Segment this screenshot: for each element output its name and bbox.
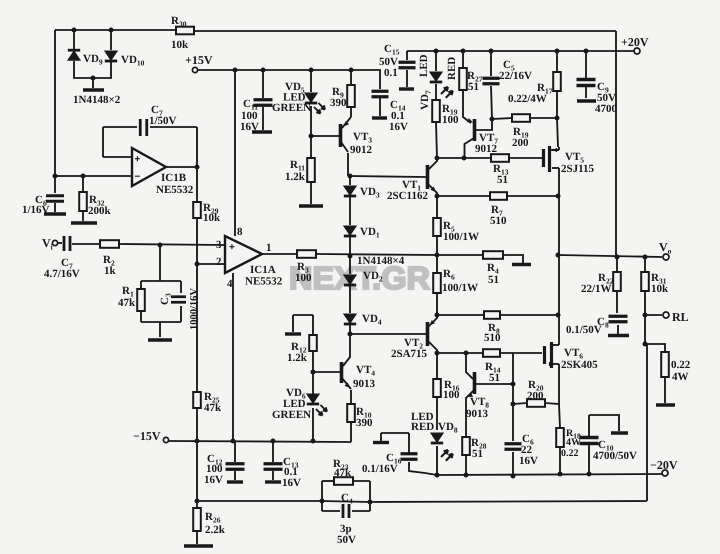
node R22 tap (615, 255, 620, 260)
wire R9 to VT3 emitter (350, 107, 352, 117)
wire VD4 to node B (349, 324, 351, 334)
wire VT4 emitter diagonal (342, 378, 351, 389)
svg-text:−20V: −20V (650, 458, 678, 472)
MOSFET VT6 2SK405 (543, 346, 546, 364)
wire R32 top lead (82, 176, 84, 192)
wire VD8 to bottom rail (436, 446, 438, 475)
svg-text:9012: 9012 (350, 144, 373, 156)
node C6 rail (511, 474, 516, 479)
node C9 rail tap (584, 49, 589, 54)
wire R16 to VD8 (436, 397, 438, 430)
svg-text:9013: 9013 (466, 408, 489, 420)
wire R28 to bottom rail (465, 455, 467, 476)
resistor R27 (459, 68, 467, 90)
capacitor C8 (609, 316, 628, 322)
diode VD4 (344, 314, 356, 323)
wire VT3 emitter diagonal (342, 117, 351, 128)
node RL (643, 313, 648, 318)
wire R9 top lead (350, 70, 352, 85)
wire R8 to output line (500, 314, 559, 316)
svg-text:2SC1162: 2SC1162 (387, 190, 428, 202)
node C5 rail tap (489, 49, 494, 54)
svg-text:−: − (135, 172, 141, 183)
wire R23-C4 left bracket (321, 481, 323, 511)
node VT2 emitter (435, 313, 440, 318)
arrows VD7 (441, 87, 448, 94)
node R23 C4 left (320, 499, 325, 504)
wire C4 right lead (352, 510, 370, 512)
node VT8 base junction (511, 382, 516, 387)
capacitor C15 (399, 62, 416, 68)
wire VD10 top lead (110, 30, 112, 50)
wire C7 feedback left horizontal (103, 126, 137, 128)
wire servo top right segment (194, 30, 616, 32)
wire C10 ground jog (589, 415, 619, 431)
terminal RL (663, 312, 669, 318)
transistor VT3 9012 PNP (339, 124, 343, 147)
wire +20V rail (407, 50, 637, 52)
svg-text:4W: 4W (566, 437, 581, 448)
wire VT6 drain up (558, 315, 560, 345)
wire C3 top lead (180, 281, 182, 293)
node R31 tap (643, 255, 648, 260)
wire C12 top lead (234, 441, 236, 462)
resistor R32 (79, 192, 87, 211)
node input bias tap (158, 243, 163, 248)
capacitor C14 (372, 91, 389, 97)
wire C3 bottom lead (180, 306, 182, 322)
svg-text:NE5532: NE5532 (245, 276, 283, 288)
wire C7 input to R2 (72, 243, 100, 245)
wire C5 node to R19 200 (492, 118, 512, 119)
terminal Vi (52, 240, 57, 245)
node VD8 rail (435, 473, 440, 478)
svg-text:0.1/16V: 0.1/16V (362, 463, 398, 475)
transistor VT1 2SC1162 NPN (426, 165, 430, 189)
LED VD6 (307, 394, 319, 403)
svg-text:2SA715: 2SA715 (391, 348, 428, 360)
svg-text:RED: RED (446, 57, 458, 80)
wire R31 to RL node (644, 291, 646, 344)
resistor R16 (433, 379, 441, 397)
wire VT5 source up (558, 147, 560, 150)
wire VT4 base from R12 node (313, 371, 340, 373)
ground C8 (608, 334, 629, 337)
wire VT8 emitter diagonal (466, 390, 474, 400)
wire R32 ground lead (82, 211, 84, 221)
svg-text:2SK405: 2SK405 (561, 359, 598, 371)
svg-text:50V: 50V (337, 534, 356, 546)
wire bias node to R6 (436, 255, 438, 273)
node feedback takeoff (643, 342, 648, 347)
svg-text:47k: 47k (118, 297, 136, 309)
svg-text:2: 2 (216, 256, 222, 268)
ground bar C9 (577, 99, 596, 102)
wire node A to VT1 base (350, 176, 426, 177)
op-amp IC1A (225, 236, 262, 273)
resistor R11 (307, 158, 315, 182)
wire VD9 top lead (73, 30, 75, 50)
wire R27 top lead (462, 51, 464, 68)
resistor R5 (433, 218, 441, 236)
ground bar C10 (611, 431, 628, 434)
svg-text:10k: 10k (651, 283, 669, 295)
node IC1B output (195, 165, 200, 170)
wire RL node to damping resistor (645, 344, 665, 352)
wire VD5 to R11 and VT3 base node (310, 106, 312, 158)
resistor R18 (556, 428, 564, 447)
resistor R30 (176, 27, 194, 35)
wire VT5 source lead (549, 149, 559, 151)
node diode chain bottom (348, 332, 353, 337)
wire bias node to R4 (437, 254, 483, 256)
resistor R29 (193, 202, 201, 218)
node pin4 rail junction (231, 439, 236, 444)
wire VD7 top lead (435, 51, 437, 71)
wire R12 top lead (312, 315, 314, 335)
node VT6 drain junction (556, 313, 561, 318)
svg-text:10k: 10k (171, 39, 189, 51)
svg-text:+15V: +15V (185, 53, 213, 67)
svg-text:51: 51 (488, 274, 499, 286)
wire R1 bottom lead (140, 311, 142, 322)
node R9 tap (349, 68, 354, 73)
LED VD7 (430, 72, 442, 81)
resistor R19 200 (512, 114, 530, 122)
svg-text:100: 100 (295, 272, 312, 284)
wire C9 top lead (585, 51, 587, 78)
svg-text:200: 200 (527, 390, 544, 402)
resistor R23 (334, 477, 353, 485)
capacitor C12 (226, 464, 245, 470)
wire C16 jog to termination (381, 432, 409, 434)
transistor VT2 2SA715 PNP (426, 322, 430, 346)
wire feedback line left (197, 500, 322, 502)
node C13 tap (271, 439, 276, 444)
ground bar C13 (265, 480, 281, 483)
node pin8 supply tap (233, 68, 238, 73)
transistor VT4 9013 NPN (340, 362, 344, 383)
node VT3 base (309, 134, 314, 139)
wire C7 feedback left vertical (102, 127, 104, 157)
wire C12 lower lead (234, 471, 236, 480)
LED VD5 (305, 93, 317, 102)
node C11 tap (261, 68, 266, 73)
wire VD1 to mid node (349, 236, 351, 256)
svg-text:3: 3 (216, 239, 222, 251)
svg-text:200: 200 (512, 137, 529, 149)
wire C13 top lead (272, 441, 274, 462)
svg-text:16V: 16V (282, 477, 301, 489)
wire feedback line right (370, 501, 647, 502)
node R28 rail (464, 473, 469, 478)
wire R10 to -15V rail corner (350, 422, 352, 442)
node VD10 tap (109, 28, 114, 33)
capacitor C11 (254, 100, 273, 106)
wire R19 200 to R17 node (530, 117, 557, 119)
capacitor C10 (580, 438, 599, 444)
svg-text:8: 8 (237, 226, 243, 238)
ground R4 (512, 263, 531, 266)
capacitor C9 (577, 80, 596, 86)
wire IC1B non-inverting input (103, 156, 132, 158)
resistor R19 100 (432, 100, 440, 122)
svg-text:0.1: 0.1 (384, 67, 398, 79)
wire damping resistor ground lead (664, 377, 666, 403)
terminal +20V (634, 48, 640, 54)
resistor R1 (137, 289, 145, 311)
wire R20 node to C6 (512, 404, 514, 441)
capacitor C16 (401, 454, 418, 460)
resistor R28 (462, 437, 470, 455)
LED VD8 (431, 433, 443, 442)
node VT8 collector junction (464, 351, 469, 356)
wire VT1 collector diagonal (428, 158, 437, 170)
arrows VD5 (314, 107, 321, 114)
wire R14 to VT6 gate (500, 352, 542, 354)
ground R11 (299, 204, 323, 207)
wire node B to VT2 base (350, 333, 426, 335)
node bias center (435, 253, 440, 258)
wire VT1 collector node to R13 (437, 157, 491, 159)
wire VT3 collector down (347, 153, 349, 176)
node IC1A pin2 (195, 262, 200, 267)
capacitor C4 (343, 504, 349, 518)
resistor R31 (641, 272, 649, 291)
svg-text:2SJ115: 2SJ115 (561, 163, 595, 175)
svg-text:0.22: 0.22 (561, 448, 579, 459)
svg-text:100/1W: 100/1W (443, 231, 479, 243)
wire R22 top lead (616, 257, 618, 272)
wire R14 node to VT8 collector (466, 354, 473, 379)
wire -15V rail to feedback node (196, 441, 198, 501)
node C5 bottom junction (490, 117, 495, 122)
ground clamp (83, 88, 104, 91)
wire IC1A output to R3 (262, 253, 297, 255)
wire R2 to IC1A pin 3 (119, 244, 225, 245)
wire node B down to VT4 collector (343, 334, 350, 366)
svg-text:4: 4 (227, 278, 233, 290)
resistor R14 (483, 349, 500, 357)
wire VD6 to -15V rail (312, 408, 314, 441)
svg-text:RED: RED (411, 421, 434, 433)
svg-text:4700: 4700 (595, 103, 618, 115)
wire output to Vo terminal (558, 255, 662, 257)
wire R14 branch down to VT8 base (512, 353, 514, 384)
wire VT2 collector node to R14 (437, 352, 483, 354)
svg-text:51: 51 (468, 81, 479, 93)
diode VD10 (105, 51, 117, 60)
svg-text:RL: RL (672, 310, 689, 324)
wire C16 termination stem (380, 433, 382, 441)
svg-text:47k: 47k (204, 402, 222, 414)
wire R20 right lead (545, 403, 559, 404)
wire R6 to VT2 emitter node (436, 293, 438, 315)
resistor R4 (483, 251, 503, 259)
wire IC1A pin 2 (197, 263, 225, 265)
svg-text:IC1B: IC1B (161, 172, 187, 184)
resistor R20 (527, 399, 545, 407)
wire R1-C3 bottom bracket (141, 321, 181, 323)
ground bar C11 (252, 130, 272, 133)
wire VT7 base to C5 node (476, 119, 492, 130)
svg-text:16V: 16V (389, 121, 408, 133)
wire VT2 emitter diagonal (428, 315, 437, 327)
diode VD2 (344, 275, 356, 284)
svg-text:9013: 9013 (353, 378, 376, 390)
ground R32 (71, 221, 97, 224)
wire C7 feedback right horizontal (150, 126, 197, 128)
svg-text:2.2k: 2.2k (205, 524, 226, 536)
wire R31 top lead (644, 257, 646, 272)
svg-text:16V: 16V (204, 474, 223, 486)
wire C15 lower lead (406, 70, 408, 87)
svg-text:0.22/4W: 0.22/4W (508, 93, 547, 105)
resistor R12 (309, 335, 317, 351)
resistor R6 (433, 273, 441, 293)
wire R17 bottom lead (556, 91, 558, 118)
wire VT2 emitter node to R8 (437, 314, 484, 316)
wire R17 node to VT5 source (557, 118, 558, 147)
node R32 tap (81, 174, 86, 179)
wire C8 ground stem (617, 325, 619, 334)
svg-text:100: 100 (443, 389, 460, 401)
resistor R9 (347, 85, 355, 107)
svg-text:510: 510 (484, 332, 501, 344)
transistor VT7 9012 PNP (473, 119, 477, 141)
node R18 rail (558, 472, 563, 477)
wire R4 to ground jog (503, 255, 523, 263)
svg-text:GREEN: GREEN (272, 409, 311, 421)
node diode chain mid (348, 254, 353, 259)
wire R22 to C8 (616, 291, 618, 313)
wire R3 to bias node (316, 254, 437, 255)
terminal -15V (163, 437, 168, 442)
svg-text:1/50V: 1/50V (149, 115, 177, 127)
capacitor C6 servo input (46, 196, 64, 202)
wire +15V rail into C14 (197, 70, 380, 89)
resistor R10 (347, 404, 355, 422)
svg-text:+20V: +20V (621, 35, 649, 49)
wire pin2 node down to R25 (196, 264, 198, 392)
wire clamp ground stem (92, 78, 94, 88)
capacitor C6 22 (505, 444, 522, 450)
svg-text:1N4148×4: 1N4148×4 (357, 255, 405, 267)
svg-text:1.2k: 1.2k (285, 171, 306, 183)
resistor R8 (484, 311, 500, 319)
termination bar C14 (372, 116, 387, 119)
wire output line lower (558, 255, 560, 315)
wire servo top left segment (55, 29, 176, 31)
wire R1 top lead (140, 281, 142, 289)
svg-text:+: + (135, 154, 141, 165)
svg-text:10k: 10k (203, 212, 221, 224)
wire C15 top lead (406, 51, 408, 60)
wire R20 left lead (513, 403, 527, 404)
resistor R13 (491, 154, 509, 162)
node VT5 drain junction (556, 194, 561, 199)
svg-text:22/1W: 22/1W (581, 283, 612, 295)
wire VT8 base (476, 383, 513, 385)
svg-text:−15V: −15V (133, 429, 161, 443)
capacitor C7 servo (140, 119, 147, 136)
wire R23 right lead (353, 480, 370, 482)
wire R1-C3 top bracket (141, 280, 181, 282)
wire VD3 to VD1 (349, 196, 351, 225)
svg-text:100: 100 (442, 114, 459, 126)
capacitor C7 input (64, 236, 70, 251)
svg-text:1: 1 (266, 242, 272, 254)
wire C16 top lead (408, 433, 410, 453)
svg-text:IC1A: IC1A (250, 264, 276, 276)
ground bar C12 (227, 480, 243, 483)
wire R23-C4 right bracket (369, 481, 371, 511)
wire R12 ground stem (292, 315, 294, 332)
diode VD1 (344, 226, 356, 235)
svg-text:200k: 200k (88, 205, 112, 217)
node clamp common (91, 76, 96, 81)
wire VT8 emitter to R28 (465, 400, 467, 437)
wire IC1A pin 8 supply (234, 70, 236, 236)
wire R19 to VT1 collector node (436, 122, 437, 158)
svg-text:GREEN: GREEN (272, 102, 311, 114)
svg-text:0.22: 0.22 (671, 359, 691, 371)
svg-text:16V: 16V (519, 455, 538, 467)
svg-text:100/1W: 100/1W (442, 282, 478, 294)
wire VT8 base node to R20 node (512, 384, 514, 404)
wire C10 to -20V rail (588, 445, 590, 474)
resistor R2 (100, 240, 119, 248)
capacitor C5 (483, 78, 500, 84)
node VD9 tap (72, 28, 77, 33)
node VT7 collector junction (462, 156, 467, 161)
svg-text:1k: 1k (104, 265, 117, 277)
wire VT3 collector diagonal (341, 142, 348, 152)
svg-text:9012: 9012 (475, 143, 498, 155)
wire R13 to VT5 gate (509, 157, 542, 159)
svg-text:LED: LED (418, 54, 430, 77)
wire VT6 source stub (553, 363, 559, 365)
wire C4 left lead (322, 510, 340, 512)
wire R1-C3 ground stem (159, 322, 161, 337)
diode VD9 (68, 49, 80, 52)
svg-text:51: 51 (497, 174, 508, 186)
svg-text:1N4148×2: 1N4148×2 (73, 94, 121, 106)
wire R5 to bias node (436, 236, 438, 255)
wire VT3 base (311, 135, 339, 137)
node IC1B inverting input (53, 174, 58, 179)
resistor R26 (193, 508, 201, 531)
wire VT5 drain down (558, 168, 560, 196)
ground R1 C3 (148, 338, 172, 341)
node R23 C4 right (368, 500, 373, 505)
op-amp IC1B (132, 148, 166, 186)
wire R18 top lead (559, 404, 560, 428)
svg-text:390: 390 (356, 417, 373, 429)
svg-text:390: 390 (330, 97, 347, 109)
wire servo vertical to output node (615, 31, 617, 255)
node VT1 emitter (435, 194, 440, 199)
svg-text:22/16V: 22/16V (499, 70, 532, 82)
termination bar C16 (373, 441, 389, 444)
wire Vi terminal lead (58, 242, 62, 244)
wire C14 lower lead (379, 98, 381, 116)
wire feedback vertical to RL node (646, 344, 648, 501)
wire C5 bottom lead (491, 86, 492, 119)
svg-text:47k: 47k (334, 467, 352, 479)
node output (556, 253, 561, 258)
wire input node down to R1-C3 (159, 245, 161, 281)
